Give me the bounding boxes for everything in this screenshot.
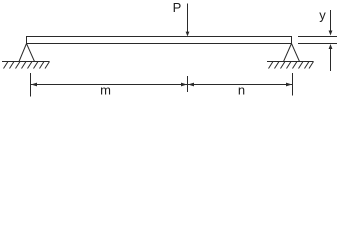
- dimension line m: [31, 84, 188, 86]
- dimension middle tick: [187, 76, 189, 92]
- beam: [27, 37, 292, 44]
- svg-text:m: m: [100, 83, 111, 98]
- right ground hatching: [269, 62, 314, 69]
- right extension line top (level of beam top): [298, 36, 337, 38]
- left support triangle: [19, 44, 35, 62]
- right ground line: [267, 61, 314, 63]
- svg-text:y: y: [319, 8, 326, 23]
- left ground hatching: [4, 62, 50, 69]
- arrowhead m left: [31, 83, 37, 87]
- arrowhead load P: [186, 32, 190, 37]
- y dimension upper arrow line: [330, 10, 332, 33]
- arrowhead y down: [329, 31, 333, 36]
- arrowhead m right: [181, 83, 187, 87]
- left ground line: [2, 61, 50, 63]
- right support triangle: [284, 44, 300, 62]
- svg-text:n: n: [238, 83, 245, 98]
- dimension extension line left: [30, 73, 32, 97]
- arrowhead n left: [188, 83, 194, 87]
- arrowhead n right: [286, 83, 292, 87]
- arrowhead y up: [329, 44, 333, 49]
- dimension extension line right: [292, 73, 294, 96]
- dimension line n: [188, 84, 293, 86]
- svg-text:P: P: [173, 0, 182, 15]
- load arrow line P: [187, 4, 189, 33]
- y dimension lower arrow line: [330, 48, 332, 72]
- right extension line bottom (level of beam bottom): [298, 43, 337, 45]
